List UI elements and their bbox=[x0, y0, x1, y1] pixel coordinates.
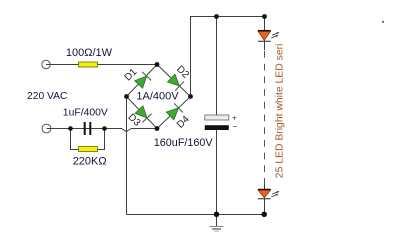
diode D3 bbox=[134, 105, 151, 122]
ground symbol bbox=[210, 227, 224, 232]
wire DC minus: bridge left node down bbox=[126, 97, 128, 215]
terminal P1 (live) bbox=[42, 60, 50, 68]
node cap top rail bbox=[214, 14, 219, 19]
wire smoothing cap drop bbox=[216, 17, 218, 227]
node C1 right bbox=[102, 126, 107, 131]
node LED top rail bbox=[262, 14, 267, 19]
wire hop to bridge bottom node bbox=[131, 128, 157, 130]
node bridge left bbox=[124, 94, 129, 99]
capacitor C2 160uF/160V plates bbox=[205, 115, 229, 120]
wire top AC: terminal to resistor R1 bbox=[46, 64, 79, 66]
svg-text:220KΩ: 220KΩ bbox=[73, 156, 107, 168]
wire bottom AC: terminal to cap junction bbox=[47, 128, 123, 130]
diode D1 bbox=[134, 72, 151, 89]
diode D4 bbox=[166, 103, 183, 120]
LED LED1 top bbox=[258, 31, 279, 42]
wire parallel loop for R2 bbox=[71, 129, 105, 150]
svg-text:160uF/160V: 160uF/160V bbox=[154, 137, 214, 149]
wire DC plus: bridge right node up and top rail bbox=[191, 17, 265, 97]
terminal P2 (neutral) bbox=[42, 124, 51, 133]
wire bottom rail bbox=[127, 214, 265, 216]
node C1 left bbox=[68, 126, 73, 131]
svg-text:25 LED Bright white LED seri: 25 LED Bright white LED seri bbox=[274, 44, 285, 179]
node bridge top bbox=[155, 62, 160, 67]
node bridge right bbox=[188, 94, 193, 99]
resistor R2 220K bbox=[79, 147, 98, 152]
svg-text:220 VAC: 220 VAC bbox=[27, 91, 68, 102]
resistor R1 100ohm/1W bbox=[79, 62, 98, 67]
svg-text:−: − bbox=[232, 121, 237, 131]
wire stub inside P2 bbox=[47, 128, 51, 130]
svg-text:100Ω/1W: 100Ω/1W bbox=[66, 47, 113, 59]
wire LED string dashed segment bbox=[264, 51, 266, 184]
svg-text:1uF/400V: 1uF/400V bbox=[63, 107, 108, 118]
LED LED2 bottom bbox=[258, 190, 279, 199]
wire resistor R1 to bridge top node bbox=[98, 64, 158, 66]
capacitor C1 1uF/400V plates bbox=[84, 122, 86, 135]
node LED bottom bbox=[261, 212, 267, 218]
wire stub inside P1 bbox=[46, 64, 50, 66]
node ground junction bbox=[214, 212, 220, 218]
diode D2 bbox=[167, 73, 184, 90]
node bridge bottom bbox=[155, 126, 160, 131]
svg-text:1A/400V: 1A/400V bbox=[136, 91, 179, 103]
wire hop-over crossing bbox=[122, 129, 132, 132]
wire LED string solid segments bbox=[264, 17, 266, 215]
stray dot top right bbox=[382, 21, 384, 23]
bridge diamond wires bbox=[127, 65, 191, 129]
